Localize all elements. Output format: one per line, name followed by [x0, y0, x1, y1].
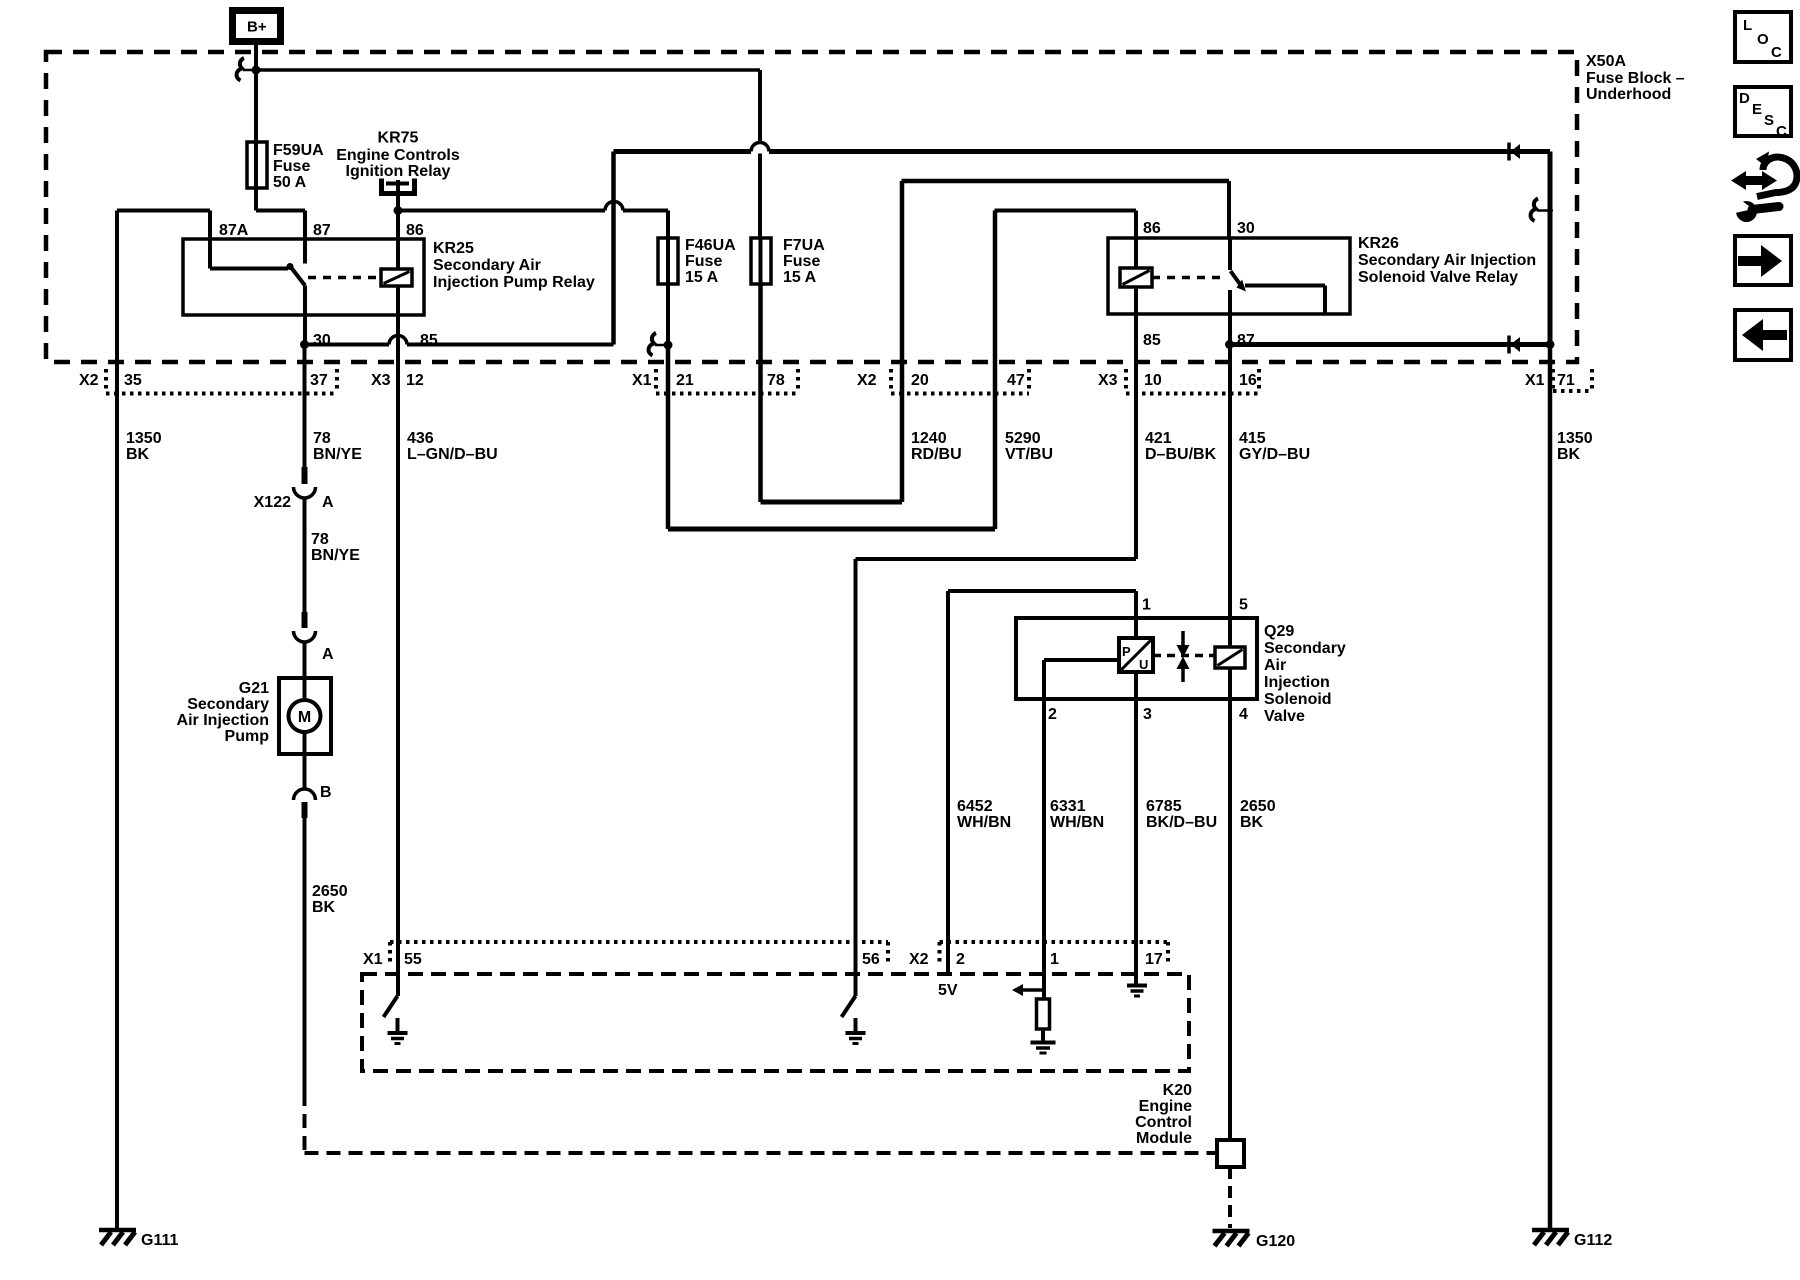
svg-text:X1: X1: [1525, 372, 1545, 389]
svg-text:D: D: [1739, 90, 1750, 107]
svg-text:15 A: 15 A: [783, 269, 817, 286]
svg-text:GY/D–BU: GY/D–BU: [1239, 446, 1310, 463]
svg-text:87A: 87A: [219, 222, 249, 239]
svg-text:KR75: KR75: [378, 130, 419, 147]
svg-text:BK: BK: [1240, 814, 1264, 831]
svg-text:5V: 5V: [938, 982, 958, 999]
svg-text:Control: Control: [1135, 1114, 1192, 1131]
svg-text:BK: BK: [1557, 446, 1581, 463]
svg-text:Ignition Relay: Ignition Relay: [346, 163, 451, 180]
svg-text:BK: BK: [312, 899, 336, 916]
svg-text:85: 85: [1143, 332, 1161, 349]
svg-text:2: 2: [956, 951, 965, 968]
svg-text:78: 78: [311, 531, 329, 548]
svg-text:Secondary Air: Secondary Air: [433, 257, 541, 274]
svg-text:17: 17: [1145, 951, 1163, 968]
svg-text:L: L: [1743, 17, 1752, 34]
svg-text:1350: 1350: [126, 430, 162, 447]
svg-text:KR25: KR25: [433, 240, 474, 257]
svg-text:WH/BN: WH/BN: [957, 814, 1011, 831]
svg-text:12: 12: [406, 372, 424, 389]
svg-text:Injection Pump Relay: Injection Pump Relay: [433, 274, 595, 291]
svg-text:X1: X1: [363, 951, 383, 968]
svg-text:X3: X3: [371, 372, 391, 389]
svg-text:Q29: Q29: [1264, 623, 1294, 640]
svg-text:Fuse: Fuse: [783, 253, 820, 270]
svg-text:P: P: [1122, 644, 1131, 659]
svg-text:421: 421: [1145, 430, 1172, 447]
svg-text:M: M: [298, 709, 311, 726]
svg-text:D–BU/BK: D–BU/BK: [1145, 446, 1217, 463]
svg-text:415: 415: [1239, 430, 1266, 447]
svg-text:Secondary: Secondary: [1264, 640, 1346, 657]
svg-text:15 A: 15 A: [685, 269, 719, 286]
svg-text:Injection: Injection: [1264, 674, 1330, 691]
svg-text:16: 16: [1239, 372, 1257, 389]
svg-text:87: 87: [313, 222, 331, 239]
svg-text:1: 1: [1050, 951, 1059, 968]
svg-text:F59UA: F59UA: [273, 142, 324, 159]
svg-text:X3: X3: [1098, 372, 1118, 389]
svg-text:35: 35: [124, 372, 142, 389]
svg-text:78: 78: [313, 430, 331, 447]
svg-text:5: 5: [1239, 597, 1248, 614]
svg-text:Underhood: Underhood: [1586, 86, 1671, 103]
svg-text:56: 56: [862, 951, 880, 968]
svg-text:6452: 6452: [957, 798, 993, 815]
svg-text:S: S: [1764, 112, 1774, 129]
svg-text:Air: Air: [1264, 657, 1286, 674]
svg-text:1240: 1240: [911, 430, 947, 447]
svg-text:3: 3: [1143, 706, 1152, 723]
svg-text:6331: 6331: [1050, 798, 1086, 815]
svg-text:2650: 2650: [312, 883, 348, 900]
svg-text:1350: 1350: [1557, 430, 1593, 447]
svg-text:K20: K20: [1163, 1082, 1192, 1099]
svg-text:436: 436: [407, 430, 434, 447]
svg-text:Secondary: Secondary: [187, 696, 269, 713]
svg-text:E: E: [1752, 101, 1762, 118]
svg-text:Engine Controls: Engine Controls: [336, 147, 460, 164]
svg-text:1: 1: [1142, 597, 1151, 614]
svg-text:2: 2: [1048, 706, 1057, 723]
svg-text:Solenoid: Solenoid: [1264, 691, 1332, 708]
svg-text:C: C: [1776, 123, 1787, 140]
svg-text:X2: X2: [909, 951, 929, 968]
svg-text:30: 30: [1237, 220, 1255, 237]
svg-text:Fuse: Fuse: [273, 158, 310, 175]
svg-text:G21: G21: [239, 680, 269, 697]
svg-text:2650: 2650: [1240, 798, 1276, 815]
svg-text:U: U: [1139, 657, 1148, 672]
svg-text:4: 4: [1239, 706, 1248, 723]
svg-text:A: A: [322, 646, 334, 663]
svg-text:78: 78: [767, 372, 785, 389]
svg-text:WH/BN: WH/BN: [1050, 814, 1104, 831]
svg-text:Fuse: Fuse: [685, 253, 722, 270]
svg-text:55: 55: [404, 951, 422, 968]
svg-text:BN/YE: BN/YE: [313, 446, 362, 463]
svg-text:Solenoid Valve Relay: Solenoid Valve Relay: [1358, 269, 1518, 286]
svg-text:BN/YE: BN/YE: [311, 547, 360, 564]
svg-text:G112: G112: [1574, 1232, 1612, 1249]
svg-text:X2: X2: [857, 372, 877, 389]
svg-text:BK: BK: [126, 446, 150, 463]
svg-text:VT/BU: VT/BU: [1005, 446, 1053, 463]
svg-text:X1: X1: [632, 372, 652, 389]
svg-text:10: 10: [1144, 372, 1162, 389]
svg-text:71: 71: [1557, 372, 1575, 389]
svg-text:O: O: [1757, 31, 1769, 48]
svg-text:X50A: X50A: [1586, 53, 1626, 70]
svg-text:50 A: 50 A: [273, 174, 307, 191]
svg-text:RD/BU: RD/BU: [911, 446, 962, 463]
svg-text:F7UA: F7UA: [783, 237, 825, 254]
svg-text:Engine: Engine: [1139, 1098, 1192, 1115]
svg-text:5290: 5290: [1005, 430, 1041, 447]
svg-text:A: A: [322, 494, 334, 511]
svg-text:G111: G111: [141, 1232, 178, 1249]
svg-text:Valve: Valve: [1264, 708, 1305, 725]
svg-text:G120: G120: [1256, 1233, 1295, 1250]
svg-text:21: 21: [676, 372, 694, 389]
svg-text:37: 37: [310, 372, 328, 389]
svg-text:B+: B+: [247, 19, 267, 36]
svg-text:Secondary Air Injection: Secondary Air Injection: [1358, 252, 1536, 269]
svg-text:C: C: [1771, 44, 1782, 61]
svg-text:Fuse Block –: Fuse Block –: [1586, 70, 1685, 87]
svg-text:20: 20: [911, 372, 929, 389]
svg-text:L–GN/D–BU: L–GN/D–BU: [407, 446, 498, 463]
svg-text:X122: X122: [254, 494, 291, 511]
svg-text:BK/D–BU: BK/D–BU: [1146, 814, 1217, 831]
svg-text:86: 86: [406, 222, 424, 239]
svg-text:F46UA: F46UA: [685, 237, 736, 254]
svg-text:X2: X2: [79, 372, 99, 389]
svg-text:Pump: Pump: [225, 728, 270, 745]
svg-text:KR26: KR26: [1358, 235, 1399, 252]
svg-text:86: 86: [1143, 220, 1161, 237]
svg-text:47: 47: [1007, 372, 1025, 389]
svg-text:Module: Module: [1136, 1130, 1192, 1147]
svg-text:Air Injection: Air Injection: [177, 712, 269, 729]
svg-text:B: B: [320, 784, 332, 801]
svg-text:6785: 6785: [1146, 798, 1182, 815]
